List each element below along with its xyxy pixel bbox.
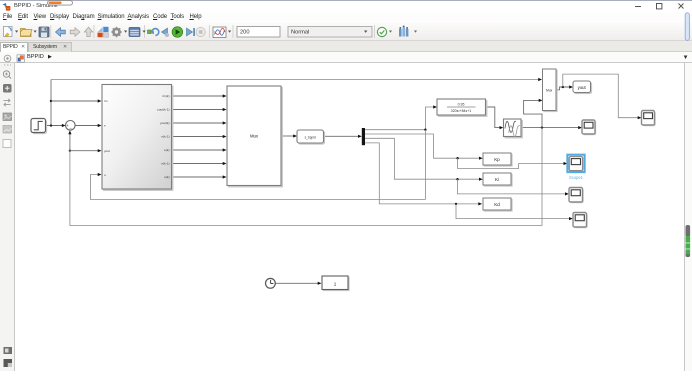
node: junction at rin line [50, 100, 52, 102]
open [21, 29, 37, 37]
wire: subsystem out1 to Mux1 [172, 95, 224, 97]
wire: subsystem out3 to Mux1 [172, 122, 224, 124]
sum block [66, 121, 76, 132]
step source block [31, 119, 47, 134]
svg-text:Mux: Mux [546, 89, 552, 93]
wire: subsystem out2 to Mux1 [172, 109, 224, 111]
scope (Kd) [573, 213, 588, 229]
wire: subsystem out7 to Mux1 [172, 176, 224, 178]
fwd [70, 28, 80, 37]
svg-text:Kd: Kd [494, 202, 500, 207]
node: junction Kp [456, 157, 458, 159]
wire: u feedback from demux col to u port [91, 175, 426, 200]
node: junction on yout feedback line [69, 150, 71, 152]
s-function s_bppid [297, 130, 325, 144]
node: junction Kd [455, 203, 457, 205]
wire: Kd branch to scope [456, 204, 569, 219]
scope (yout, right of transport delay) [582, 120, 596, 135]
gain display Ki [483, 173, 512, 186]
connect icon [148, 29, 159, 36]
wire: clock to display [275, 282, 318, 284]
svg-text:−: − [69, 126, 72, 131]
wire: yout line into subsystem [70, 150, 98, 152]
step back [162, 28, 170, 37]
wire: sum to e port [75, 125, 98, 127]
scope tool [213, 27, 231, 38]
scope (Ki) [569, 188, 584, 204]
svg-text:e: e [104, 124, 106, 128]
svg-text:Normal: Normal [291, 30, 309, 36]
stop (disabled) [196, 27, 205, 36]
wire: Mux2 out to yout port [556, 87, 570, 90]
svg-text:Mux: Mux [250, 134, 259, 139]
wire: Mux1 to s_bppid [281, 135, 294, 137]
svg-text:yout(k): yout(k) [160, 121, 169, 125]
svg-text:0.95: 0.95 [458, 103, 465, 107]
gear [111, 27, 127, 37]
svg-text:e(k): e(k) [164, 148, 169, 152]
wire: demux out1 (u) to plant column [365, 107, 434, 130]
svg-text:yout: yout [104, 149, 110, 153]
gain display Kp [483, 153, 512, 166]
wire: u signal down to feedback row [424, 130, 426, 200]
mode dropdown [288, 27, 372, 38]
svg-text:e(k-1): e(k-1) [161, 162, 169, 166]
wire: subsystem out4 to Mux1 [172, 136, 224, 138]
display block showing 1 [322, 276, 349, 291]
svg-text:Scope1: Scope1 [569, 175, 584, 180]
node: junction u signal [424, 129, 426, 131]
library browser [98, 27, 109, 37]
wire: long top line rin to Mux2 input1 [51, 79, 539, 81]
svg-text:yout(k-1): yout(k-1) [157, 108, 169, 112]
transport delay [504, 119, 523, 138]
clock block [266, 278, 276, 288]
mux Mux2 [543, 69, 558, 112]
new model [4, 27, 19, 38]
model browser window [129, 28, 146, 37]
wire: demux out4 (Kd) [365, 143, 479, 204]
scope Scope1 (selected) [567, 155, 584, 180]
build check [377, 27, 386, 36]
back [56, 28, 66, 37]
wire: s_bppid to demux [323, 135, 358, 137]
gain display Kd [483, 198, 512, 211]
deploy icon [399, 26, 417, 37]
wire: transport delay output to scope [521, 127, 579, 129]
node: junction on step output (rin branch) [50, 124, 52, 126]
wire: rin branch vertical up [50, 80, 52, 126]
svg-text:1: 1 [334, 281, 337, 286]
up [84, 27, 92, 36]
scope (far right) [642, 111, 656, 127]
transfer fcn plant [437, 99, 487, 117]
step fwd [187, 28, 196, 36]
wire: step to sum [46, 125, 65, 127]
subsystem block (BP-PID controller) [102, 85, 173, 191]
mux Mux1 [227, 86, 283, 187]
svg-text:rin: rin [104, 99, 108, 103]
wire: demux out3 (Ki) [365, 138, 479, 179]
svg-text:Ki: Ki [495, 177, 499, 182]
wire: subsystem out5 to Mux1 [172, 149, 224, 151]
svg-text:u(k): u(k) [164, 175, 169, 179]
canvas svg placeholder [15, 63, 684, 371]
node: junction Mux2 out [562, 86, 564, 88]
node: junction yout signal [541, 126, 543, 128]
wire: demux out2 (Kp) [365, 134, 479, 158]
svg-text:rin(k): rin(k) [162, 94, 169, 98]
wire: plant TF to transport delay [486, 107, 500, 128]
wire: Kp branch to Scope1 [458, 158, 564, 168]
svg-text:e(k-1): e(k-1) [161, 135, 169, 139]
run [172, 27, 183, 38]
wire: yout jog to Mux2 input2 [524, 100, 542, 127]
demux bar [362, 128, 365, 145]
wire: branch to far scope [563, 74, 638, 118]
sim time field [237, 27, 280, 38]
wire: feedback up into sum bottom [69, 134, 71, 151]
group separators [51, 25, 375, 38]
wire: yout feedback long way to sum [70, 128, 542, 226]
wire: subsystem out6 to Mux1 [172, 163, 224, 165]
svg-text:s_bppid: s_bppid [305, 136, 316, 140]
outport yout [573, 81, 592, 94]
svg-text:u: u [104, 173, 106, 177]
save [39, 27, 49, 37]
wire: rin line into subsystem [51, 100, 98, 102]
wire: Ki branch to scope [458, 179, 566, 194]
svg-text:200: 200 [240, 30, 250, 36]
svg-text:yout: yout [578, 85, 587, 90]
node: junction Ki [456, 178, 458, 180]
svg-text:320s²+84s+1: 320s²+84s+1 [451, 109, 471, 113]
svg-text:Kp: Kp [494, 157, 500, 162]
